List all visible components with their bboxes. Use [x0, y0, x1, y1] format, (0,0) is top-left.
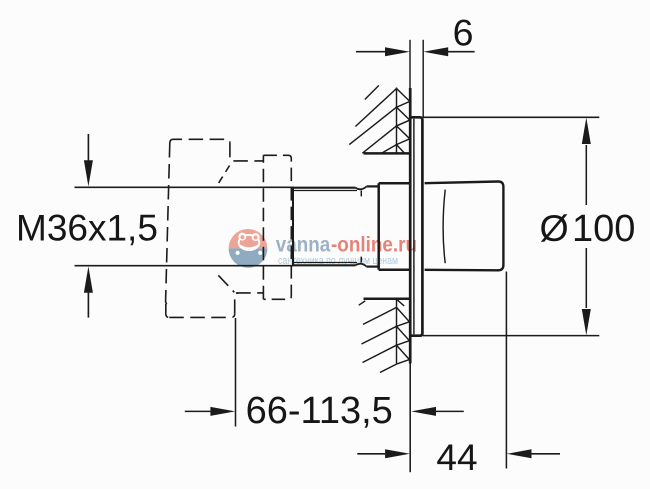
plate inner seam line: [413, 119, 415, 334]
dashed valve body outline (left block): [166, 139, 264, 317]
dim 44: extension line left (wall face, below wall): [409, 364, 411, 473]
watermark logo circle top half (salmon): [229, 229, 268, 248]
dia 100: extension line bottom: [423, 335, 599, 337]
thread end tick bottom: [360, 257, 362, 263]
svg-text:6: 6: [453, 11, 474, 53]
dim 44: left arrow tail: [357, 453, 385, 455]
watermark logo frog smile: [240, 245, 259, 248]
wall hatch top band zigzag: [397, 89, 410, 154]
M36 dim arrow top (pointing down): [87, 134, 89, 162]
dim 66-113,5: right arrow tail: [436, 410, 464, 412]
threaded tube left face: [292, 187, 294, 265]
dim 44: left arrowhead pointing right: [385, 449, 410, 458]
M36 extension line bottom: [75, 265, 294, 267]
watermark logo frog paws: [236, 251, 240, 255]
dim 66-113,5: left arrowhead pointing right: [210, 407, 235, 416]
groove dip bottom: [356, 264, 367, 267]
step line top: [233, 160, 263, 162]
svg-text:Ø: Ø: [540, 207, 569, 249]
M36 extension line top: [75, 186, 294, 188]
dimension 6: right arrowhead pointing left: [423, 47, 448, 56]
svg-text:44: 44: [436, 437, 477, 478]
M36 dim arrow bottom (pointing up): [84, 266, 93, 292]
thread root line top: [293, 190, 357, 192]
groove dip top: [356, 187, 367, 190]
dia 100: dim line lower segment + down arrow: [585, 248, 587, 308]
wall top band: back line: [396, 88, 398, 154]
wall hole bottom edge: [364, 298, 411, 301]
svg-text:66-113,5: 66-113,5: [246, 390, 393, 432]
wall front surface line: [409, 88, 412, 364]
wall hatch bottom band diagonal tails: [359, 301, 397, 373]
body bottom edge: [169, 314, 234, 318]
wall hatch top band diagonal tails: [349, 85, 396, 153]
wall hatch bottom band zigzag: [397, 299, 410, 364]
watermark logo frog left eye: [238, 233, 246, 241]
inner block left face: [377, 183, 380, 270]
dimension 6: extension line at wall face: [409, 40, 411, 88]
step line bottom: [236, 292, 263, 294]
dimension 6: dim line left tail: [356, 51, 387, 53]
dashed flange outline: [263, 155, 291, 299]
knob outline: [425, 181, 504, 270]
body bottom-left corner vertical: [166, 304, 170, 317]
watermark logo circle bottom half (blue): [229, 248, 268, 267]
chamfer diagonal bottom: [218, 275, 234, 292]
dim 44: right arrowhead pointing left: [507, 449, 532, 458]
svg-text:-online.ru: -online.ru: [331, 233, 417, 257]
body left edge (dashed, slight lean): [166, 143, 170, 305]
dimension 6: dim line right tail: [448, 51, 475, 53]
svg-text:100: 100: [572, 208, 635, 250]
dimension 6: extension line at plate face: [422, 40, 424, 117]
dim 44: extension line right (knob face): [505, 272, 507, 469]
dim 66-113,5: left arrow tail: [185, 410, 212, 412]
watermark logo frog head outline: [239, 235, 260, 250]
dia 100: dim line upper segment + up arrow: [585, 145, 587, 205]
body right edge lower: [235, 293, 239, 314]
svg-text:vanna: vanna: [276, 233, 331, 257]
svg-text:M36x1,5: M36x1,5: [16, 207, 158, 248]
body top edge: [170, 139, 230, 143]
body right edge upper + corner into step: [230, 143, 234, 161]
dim 66-113,5: right arrowhead pointing left: [411, 407, 436, 416]
collar top edge: [367, 185, 379, 187]
dia 100: extension line top: [423, 116, 599, 118]
collar bottom edge: [367, 266, 379, 268]
dimension 6: left arrowhead pointing right: [385, 47, 410, 56]
thread OD line top: [292, 187, 356, 189]
thread root line bottom: [293, 262, 357, 264]
wall bottom band: back line: [396, 299, 398, 364]
wall hole top edge: [364, 152, 411, 155]
chamfer diagonal top: [219, 163, 232, 183]
plate outline: [410, 117, 422, 335]
watermark logo frog right eye: [252, 233, 260, 241]
dim 66-113,5: extension line left: [235, 318, 237, 427]
thread OD line bottom: [292, 264, 356, 266]
inner block bottom edge: [379, 269, 411, 272]
inner block top edge: [379, 182, 411, 185]
thread end tick top: [360, 191, 362, 197]
knob inner profile curve: [443, 190, 445, 264]
dim 44: right arrow tail: [532, 453, 561, 455]
